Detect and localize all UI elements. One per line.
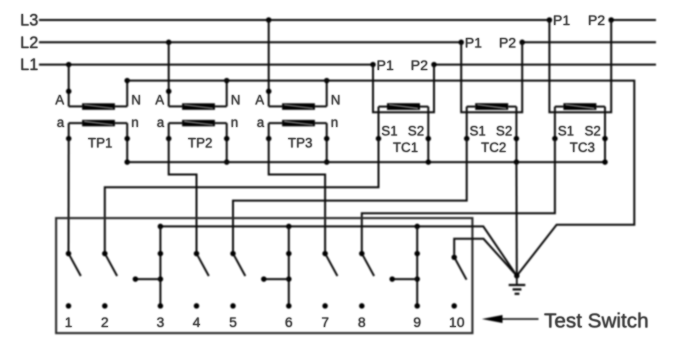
svg-text:a: a: [157, 115, 165, 130]
svg-text:TC3: TC3: [570, 140, 595, 155]
svg-text:TP1: TP1: [88, 136, 113, 151]
svg-text:S1: S1: [470, 123, 486, 138]
svg-text:TP2: TP2: [188, 136, 213, 151]
svg-text:9: 9: [413, 314, 421, 330]
svg-text:A: A: [155, 93, 164, 108]
svg-text:L1: L1: [20, 56, 38, 74]
svg-text:10: 10: [449, 314, 465, 330]
svg-text:A: A: [255, 93, 264, 108]
svg-text:S1: S1: [381, 123, 397, 138]
svg-text:S1: S1: [558, 123, 574, 138]
svg-text:6: 6: [285, 314, 293, 330]
svg-text:8: 8: [358, 314, 366, 330]
svg-text:P1: P1: [377, 58, 394, 74]
svg-text:N: N: [131, 93, 141, 108]
svg-text:TC2: TC2: [481, 140, 506, 155]
svg-text:P2: P2: [588, 13, 605, 29]
svg-text:P2: P2: [499, 36, 516, 52]
svg-text:S2: S2: [496, 123, 512, 138]
svg-text:4: 4: [193, 314, 201, 330]
svg-text:N: N: [231, 93, 241, 108]
svg-text:A: A: [55, 93, 64, 108]
svg-text:5: 5: [229, 314, 237, 330]
svg-text:P1: P1: [553, 13, 570, 29]
svg-text:S2: S2: [585, 123, 601, 138]
svg-text:a: a: [257, 115, 265, 130]
svg-text:S2: S2: [408, 123, 424, 138]
svg-text:TC1: TC1: [393, 140, 418, 155]
svg-text:n: n: [131, 115, 138, 130]
svg-text:Test Switch: Test Switch: [544, 309, 649, 332]
svg-text:1: 1: [65, 314, 73, 330]
svg-text:n: n: [331, 115, 338, 130]
svg-text:L3: L3: [20, 12, 38, 30]
svg-text:P2: P2: [411, 58, 428, 74]
svg-text:N: N: [331, 93, 341, 108]
svg-text:7: 7: [321, 314, 329, 330]
svg-text:TP3: TP3: [288, 136, 313, 151]
svg-text:a: a: [57, 115, 65, 130]
svg-text:n: n: [231, 115, 238, 130]
svg-text:3: 3: [157, 314, 165, 330]
svg-text:P1: P1: [465, 36, 482, 52]
svg-text:L2: L2: [20, 34, 38, 52]
svg-text:2: 2: [101, 314, 109, 330]
